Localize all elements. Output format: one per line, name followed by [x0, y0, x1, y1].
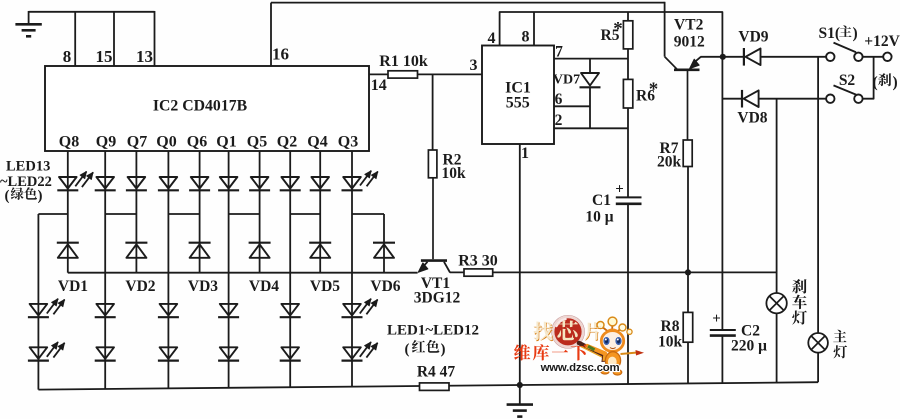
- pin 4 label (IC1): [488, 30, 496, 47]
- wire bridge pair 5: [290, 213, 320, 215]
- svg-text:Q8: Q8: [59, 134, 79, 151]
- svg-text:C1: C1: [592, 192, 611, 209]
- transistor VT2 9012: [665, 57, 701, 140]
- LED LED2 (red, row 1): [95, 304, 116, 317]
- wire bridge pair 2: [105, 213, 136, 215]
- svg-text:10k: 10k: [658, 334, 683, 351]
- svg-text:15: 15: [96, 47, 113, 66]
- LED LED17 (green): [189, 177, 210, 190]
- wire VD9 to S1: [761, 56, 827, 58]
- pin label Q1 (IC2): [216, 134, 236, 151]
- svg-text:VD7: VD7: [553, 73, 580, 88]
- svg-text:(: (: [5, 188, 10, 204]
- wire VD1 column: [67, 214, 69, 273]
- label LED13: [6, 158, 50, 174]
- LED LED16 (green): [158, 177, 179, 190]
- wire R7 to node: [687, 167, 689, 273]
- svg-text:3: 3: [470, 57, 478, 74]
- svg-text:8: 8: [63, 47, 72, 66]
- svg-text:Q2: Q2: [277, 134, 297, 151]
- wire top rail from pin 16 to VT2 collector: [271, 2, 665, 4]
- svg-text:VD1: VD1: [58, 278, 88, 295]
- LED LED15 (green): [126, 177, 147, 190]
- diode VD8: [742, 90, 759, 108]
- svg-text:1: 1: [521, 145, 529, 162]
- svg-text:+12V: +12V: [864, 33, 900, 50]
- label LED1~LED12: [387, 323, 479, 339]
- resistor R3: [464, 269, 493, 276]
- svg-text:VD3: VD3: [188, 278, 218, 295]
- resistor R7: [683, 140, 692, 167]
- wire +12V branch to S2: [863, 57, 874, 99]
- svg-text:R4 47: R4 47: [417, 364, 456, 381]
- label main-lamp: [833, 330, 847, 359]
- label R7 20k: [657, 154, 682, 171]
- pin label Q5 (IC2): [247, 134, 267, 151]
- pin 7 label (IC1): [555, 44, 563, 61]
- wire IC1 pin 1 to ground rail: [519, 144, 521, 385]
- wire R5 to pin7 node: [627, 49, 629, 80]
- wire IC2 output Q4 column: [319, 151, 321, 214]
- pin label Q3 (IC2): [338, 134, 358, 151]
- label S1(main): [819, 25, 858, 42]
- lamp main light: [808, 333, 828, 353]
- pin label Q0 (IC2): [156, 134, 176, 151]
- wire VT2 collector drop: [664, 2, 666, 57]
- emission arrows LED22: [360, 171, 378, 187]
- svg-text:*: *: [649, 79, 659, 100]
- LED LED11 (red, row 2): [280, 347, 301, 360]
- IC IC1 555 box: [482, 46, 554, 145]
- svg-text:R1 10k: R1 10k: [379, 53, 428, 70]
- LED LED21 (green): [310, 177, 331, 190]
- wire main lamp column: [817, 57, 819, 333]
- label R3 30: [458, 253, 498, 270]
- svg-text:VD2: VD2: [125, 278, 155, 295]
- wire R5 top stub: [627, 12, 629, 21]
- label S2: [839, 72, 856, 89]
- junction dot (supply node): [720, 54, 726, 60]
- wire R2 branch: [432, 74, 434, 150]
- emission arrows red LED row2 left: [47, 342, 65, 358]
- LED LED6 (red, row 1): [342, 304, 363, 317]
- svg-text:VD5: VD5: [310, 278, 340, 295]
- label 14: [371, 77, 387, 94]
- svg-text:Q4: Q4: [307, 134, 327, 151]
- resistor R2: [428, 150, 437, 178]
- wire top-left ground rail: [29, 11, 155, 13]
- svg-text:LED13: LED13: [6, 158, 50, 174]
- wire VD3 column: [199, 214, 201, 273]
- junction dot (ground node): [517, 382, 523, 388]
- wire R8 to ground rail: [687, 342, 689, 383]
- diode VD9: [744, 48, 761, 66]
- wire R1 to IC1 pin 3: [418, 73, 483, 75]
- svg-text:Q1: Q1: [216, 134, 236, 151]
- transistor VT1 3DG12: [418, 178, 450, 273]
- svg-text:13: 13: [136, 47, 153, 66]
- diode VD6: [373, 243, 395, 258]
- wire IC1 pin 2 row: [554, 127, 628, 129]
- svg-text:14: 14: [371, 77, 387, 94]
- wire IC2 output Q9 column: [104, 151, 106, 214]
- label C1: [592, 192, 611, 209]
- wire IC2 output Q8 column: [67, 151, 69, 214]
- wire left red LED column: [37, 214, 39, 390]
- LED LED1 (red, row 1): [28, 304, 49, 317]
- wire VD6 column drop: [383, 214, 385, 273]
- LED LED7 (red, row 2): [28, 347, 49, 360]
- resistor R6: [623, 79, 632, 108]
- label R2: [443, 152, 462, 169]
- label C1 10u: [585, 209, 613, 226]
- LED LED12 (red, row 2): [342, 347, 363, 360]
- pin label Q9 (IC2): [96, 134, 116, 151]
- label VD8: [737, 110, 767, 127]
- wire brake lamp column: [776, 99, 778, 293]
- 555 label: [506, 95, 530, 112]
- LED LED18 (green): [218, 177, 239, 190]
- wire IC1 pin 8 stub: [533, 12, 535, 46]
- svg-text:2: 2: [555, 112, 563, 129]
- wire bottom ground rail: [38, 382, 818, 389]
- pin 6 label (IC1): [555, 91, 563, 108]
- svg-text:3DG12: 3DG12: [414, 290, 461, 307]
- svg-text:10 μ: 10 μ: [585, 209, 613, 226]
- svg-text:8: 8: [522, 29, 530, 46]
- wire VD7 branch: [589, 59, 591, 129]
- wire VD5 column: [319, 214, 321, 273]
- ground (bottom center): [507, 385, 533, 417]
- wire IC2 pin 16 to top rail: [270, 3, 272, 66]
- wire IC1 pin 7 row: [554, 58, 628, 60]
- LED LED5 (red, row 1): [280, 304, 301, 317]
- wire bridge pair 3: [168, 213, 199, 215]
- pin label Q4 (IC2): [307, 134, 327, 151]
- svg-text:4: 4: [488, 30, 496, 47]
- svg-text:S2: S2: [839, 72, 856, 89]
- IC IC2 CD4017B box: [45, 66, 369, 151]
- wire IC2 output Q2 column: [289, 151, 291, 214]
- label VD9: [738, 29, 768, 46]
- pin 8 label (IC2): [63, 47, 72, 66]
- svg-text:16: 16: [272, 45, 289, 64]
- svg-text:Q5: Q5: [247, 134, 267, 151]
- wire IC1 pin 6 row: [554, 105, 590, 107]
- wire IC2 pin 8 to ground rail: [74, 11, 76, 66]
- wire bridge pair 6: [352, 213, 384, 215]
- wire supply rail (555 pins 4,8 / R5 to VD9 node): [500, 12, 723, 57]
- svg-text:): ): [853, 25, 858, 42]
- svg-text:VD9: VD9: [738, 29, 768, 46]
- resistor R5: [623, 21, 632, 49]
- capacitor C2: [710, 330, 736, 383]
- svg-text:www.dzsc.com: www.dzsc.com: [540, 362, 620, 374]
- diode VD4: [249, 243, 271, 258]
- LED LED13 (green): [57, 177, 78, 190]
- wire red LED column 5: [289, 214, 291, 387]
- label C2 220u: [731, 338, 767, 355]
- wire VD anode row to VT1 emitter: [68, 272, 418, 274]
- label ~LED22: [0, 174, 52, 190]
- svg-text:VD6: VD6: [370, 278, 400, 295]
- wire bridge pair 1: [38, 213, 67, 215]
- label VD4: [249, 278, 279, 295]
- IC2 label: [153, 98, 248, 115]
- diode VD1: [57, 243, 79, 258]
- svg-text:IC2 CD4017B: IC2 CD4017B: [153, 98, 248, 115]
- svg-text:R3 30: R3 30: [458, 253, 498, 270]
- wire IC2 pin 13 to ground rail: [154, 11, 156, 66]
- wire supply node to C2: [721, 57, 723, 330]
- svg-text:220 μ: 220 μ: [731, 338, 767, 355]
- label R5*: [601, 19, 623, 45]
- wire main lamp to ground rail: [817, 353, 819, 383]
- emission arrows LED13: [75, 172, 93, 188]
- svg-text:*: *: [613, 19, 623, 40]
- label VT2: [674, 17, 704, 34]
- wire VD2 column: [135, 214, 137, 273]
- emission arrows red LED row2 right: [360, 342, 378, 358]
- resistor R8: [683, 312, 693, 342]
- LED LED19 (green): [249, 177, 270, 190]
- label VT1: [421, 275, 450, 292]
- wire brake lamp to ground rail: [776, 313, 778, 382]
- pin 8 label (IC1): [522, 29, 530, 46]
- wire IC2 output Q0 column: [167, 151, 169, 214]
- diode VD7: [580, 73, 601, 87]
- svg-text:VT2: VT2: [674, 17, 704, 34]
- label VD3: [188, 278, 218, 295]
- svg-text:(: (: [873, 74, 878, 91]
- svg-text:Q0: Q0: [156, 134, 176, 151]
- switch S1 (main): [826, 43, 863, 61]
- wire red LED column 4: [228, 214, 230, 388]
- label R6*: [636, 79, 658, 105]
- LED LED9 (red, row 2): [158, 347, 179, 360]
- svg-text:S1(: S1(: [819, 25, 841, 42]
- LED LED10 (red, row 2): [218, 347, 239, 360]
- watermark url: [540, 362, 620, 374]
- label VD2: [125, 278, 155, 295]
- svg-text:LED1~LED12: LED1~LED12: [387, 323, 479, 339]
- LED LED8 (red, row 2): [95, 347, 116, 360]
- label C2: [741, 323, 760, 340]
- svg-text:): ): [441, 342, 446, 358]
- label VD6: [370, 278, 400, 295]
- pin label Q7 (IC2): [127, 134, 147, 151]
- wire IC2 pin 15 to ground rail: [113, 11, 115, 66]
- label VD5: [310, 278, 340, 295]
- pin 1 label (IC1): [521, 145, 529, 162]
- pin label Q2 (IC2): [277, 134, 297, 151]
- watermark text zhao-xin-pian: [534, 321, 603, 342]
- svg-text:): ): [38, 188, 43, 204]
- wire IC2 output Q6 column: [199, 151, 201, 214]
- label brake-lamp: [792, 279, 807, 325]
- label (red): [405, 340, 446, 358]
- wire IC2 output Q1 column: [228, 151, 230, 214]
- wire R6 to pin2 node / C1: [627, 108, 629, 197]
- pin 16 label (IC2): [272, 45, 289, 64]
- pin label Q6 (IC2): [187, 134, 207, 151]
- label C2 plus: [712, 311, 721, 327]
- label 3: [470, 57, 478, 74]
- wire IC2 output Q7 column: [135, 151, 137, 214]
- wire VD8 row: [722, 98, 741, 100]
- IC1 label: [505, 80, 531, 97]
- LED LED22 (green): [342, 177, 363, 190]
- svg-text:VD4: VD4: [249, 278, 279, 295]
- wire red LED column 3: [167, 214, 169, 388]
- svg-text:6: 6: [555, 91, 563, 108]
- label VD1: [58, 278, 88, 295]
- label R7: [660, 140, 679, 157]
- svg-text:Q9: Q9: [96, 134, 116, 151]
- wire VD4 column: [259, 214, 261, 273]
- label R1 10k: [379, 53, 428, 70]
- switch S2 (brake): [826, 85, 863, 103]
- wire S1 to +12V terminal: [863, 56, 884, 58]
- wire bridge pair 4: [229, 213, 260, 215]
- wire VT2 emitter to VD9: [701, 56, 744, 58]
- svg-text:): ): [893, 74, 898, 91]
- emission arrows red LED row1 right: [360, 299, 378, 315]
- pin 15 label (IC2): [96, 47, 113, 66]
- label R2 10k: [442, 165, 467, 182]
- diode VD3: [189, 243, 211, 258]
- svg-text:(: (: [405, 342, 410, 358]
- label R8: [661, 318, 680, 335]
- svg-text:Q7: Q7: [127, 134, 147, 151]
- label R4 47: [417, 364, 456, 381]
- LED LED3 (red, row 1): [158, 304, 179, 317]
- watermark magnifier: [552, 316, 615, 362]
- wire node to R8: [687, 272, 689, 312]
- junction dot (R7/R8 node): [685, 269, 691, 275]
- emission arrows red LED row1 left: [47, 299, 65, 315]
- wire red LED column 2: [104, 214, 106, 389]
- wire VT1 collector row / node: [450, 271, 777, 273]
- watermark mascot: [587, 317, 644, 375]
- lamp brake light: [766, 293, 786, 313]
- resistor R4: [420, 383, 450, 391]
- svg-text:555: 555: [506, 95, 530, 112]
- label C1 plus: [615, 182, 624, 198]
- svg-text:R8: R8: [661, 318, 680, 335]
- label (brake): [873, 73, 898, 91]
- watermark text weiku-yixia: [514, 344, 587, 360]
- terminal +12V: [883, 53, 891, 61]
- label 9012: [674, 34, 705, 51]
- svg-text:VD8: VD8: [737, 110, 767, 127]
- label (green): [5, 187, 43, 204]
- diode VD5: [309, 243, 331, 258]
- svg-text:9012: 9012: [674, 34, 705, 51]
- label R8 10k: [658, 334, 683, 351]
- svg-text:+: +: [712, 311, 721, 327]
- ground (top-left): [15, 11, 41, 36]
- label VD7: [553, 73, 580, 88]
- pin 2 label (IC1): [555, 112, 563, 129]
- diode VD2: [125, 243, 147, 258]
- label 3DG12: [414, 290, 461, 307]
- svg-text:Q3: Q3: [338, 134, 358, 151]
- wire red LED column 6: [351, 214, 353, 387]
- wire IC2 output Q5 column: [259, 151, 261, 214]
- svg-text:10k: 10k: [442, 165, 467, 182]
- label +12V: [864, 33, 900, 50]
- svg-text:7: 7: [555, 44, 563, 61]
- wire VD8 to S2: [759, 98, 827, 100]
- wire IC2 pin 14 to R1: [369, 73, 388, 75]
- svg-text:20k: 20k: [657, 154, 682, 171]
- LED LED14 (green): [95, 177, 116, 190]
- capacitor C1: [616, 197, 642, 384]
- wire IC2 output Q3 column: [351, 151, 353, 214]
- pin 13 label (IC2): [136, 47, 153, 66]
- svg-text:Q6: Q6: [187, 134, 207, 151]
- pin label Q8 (IC2): [59, 134, 79, 151]
- svg-text:+: +: [615, 182, 624, 198]
- resistor R1: [388, 71, 418, 78]
- LED LED20 (green): [280, 177, 301, 190]
- LED LED4 (red, row 1): [218, 304, 239, 317]
